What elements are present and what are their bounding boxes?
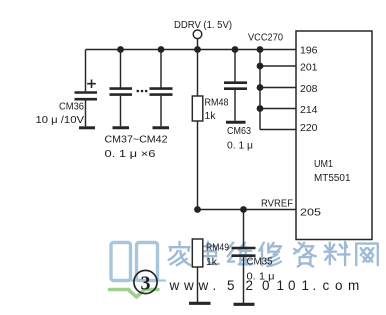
svg-text:CM37~CM42: CM37~CM42 bbox=[105, 134, 168, 146]
svg-text:CM35: CM35 bbox=[247, 256, 273, 268]
svg-text:CM63: CM63 bbox=[227, 125, 251, 137]
node RVREF / RM48 bbox=[194, 206, 201, 213]
resistor RM48 bbox=[192, 50, 203, 210]
ground CM37 bbox=[113, 126, 130, 129]
svg-text:3: 3 bbox=[141, 273, 151, 295]
ellipsis dots bbox=[137, 90, 148, 93]
wire top rail bbox=[86, 49, 297, 51]
watermark char 资 bbox=[294, 243, 316, 267]
svg-text:MT5501: MT5501 bbox=[314, 173, 351, 184]
capacitor CM37 bbox=[110, 50, 133, 127]
svg-text:0. 1 μ ×6: 0. 1 μ ×6 bbox=[105, 148, 156, 160]
ground CM36 bbox=[79, 126, 95, 129]
wire pin 214 bbox=[260, 108, 296, 110]
ground CM63 bbox=[226, 121, 246, 124]
capacitor CM36 bbox=[75, 50, 98, 127]
terminal DDRV bbox=[193, 30, 202, 39]
node RVREF / CM35 bbox=[240, 206, 247, 213]
svg-text:CM36: CM36 bbox=[59, 101, 84, 113]
node top rail / DDRV bbox=[194, 46, 201, 53]
svg-text:214: 214 bbox=[300, 104, 318, 116]
watermark char 修 bbox=[259, 243, 281, 266]
svg-text:1k: 1k bbox=[205, 110, 217, 122]
node top rail / CM63 bbox=[232, 46, 239, 53]
ground RM49 bbox=[189, 302, 211, 305]
node bus 201 bbox=[257, 63, 264, 70]
svg-text:RVREF: RVREF bbox=[261, 199, 293, 210]
node bus 208 bbox=[257, 84, 264, 91]
svg-text:1k: 1k bbox=[206, 256, 218, 268]
ground CM42 bbox=[153, 126, 170, 129]
watermark book icon bbox=[111, 243, 166, 281]
wire pin 220 bbox=[260, 129, 296, 131]
wire pin 201 bbox=[260, 65, 296, 67]
capacitor CM35 bbox=[232, 210, 256, 304]
wire VCC bus vertical bbox=[259, 50, 261, 130]
watermark char 家 bbox=[169, 242, 191, 265]
watermark char 电 bbox=[200, 242, 219, 264]
watermark url www.520101.com bbox=[169, 278, 360, 293]
node top rail / CM42 bbox=[158, 46, 165, 53]
wire RVREF to pin 205 bbox=[198, 209, 297, 211]
watermark book base (green) bbox=[110, 290, 159, 298]
svg-text:201: 201 bbox=[300, 62, 318, 74]
watermark char 维 bbox=[228, 243, 252, 265]
resistor RM49 bbox=[192, 239, 203, 302]
node bus 214 bbox=[257, 105, 264, 112]
svg-text:208: 208 bbox=[300, 83, 318, 95]
svg-text:.com: .com bbox=[313, 278, 360, 293]
watermark char 料 bbox=[324, 242, 349, 265]
watermark char 网 bbox=[356, 244, 378, 266]
wire pin 208 bbox=[260, 87, 296, 89]
svg-text:UM1: UM1 bbox=[314, 159, 333, 170]
node top rail / CM37 bbox=[117, 46, 124, 53]
svg-text:www.: www. bbox=[169, 278, 217, 293]
wire DDRV drop bbox=[197, 38, 199, 49]
svg-text:205: 205 bbox=[300, 207, 321, 219]
IC UM1 MT5501 bbox=[296, 31, 372, 240]
svg-text:VCC270: VCC270 bbox=[248, 33, 283, 44]
svg-text:10 μ /10V: 10 μ /10V bbox=[36, 114, 85, 126]
svg-text:0. 1 μ: 0. 1 μ bbox=[227, 140, 253, 152]
svg-text:0. 1 μ: 0. 1 μ bbox=[247, 271, 275, 283]
capacitor CM63 bbox=[224, 50, 247, 121]
svg-text:RM49: RM49 bbox=[206, 242, 229, 254]
capacitor CM42 bbox=[150, 50, 173, 127]
svg-text:RM48: RM48 bbox=[205, 97, 229, 109]
ground CM35 bbox=[234, 303, 255, 306]
svg-text:DDRV (1. 5V): DDRV (1. 5V) bbox=[174, 20, 232, 31]
svg-text:220: 220 bbox=[300, 122, 318, 134]
svg-text:196: 196 bbox=[300, 45, 318, 57]
node top rail / VCC bus bbox=[257, 46, 264, 53]
page number 3 circled bbox=[134, 270, 157, 294]
